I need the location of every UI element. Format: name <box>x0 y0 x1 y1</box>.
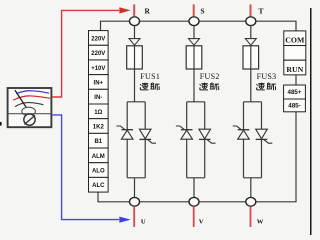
thyristor SCR1b triangle (points down) <box>139 129 151 139</box>
node T <box>246 17 256 26</box>
thyristor pair module column 3 top cap <box>244 101 262 103</box>
thyristor SCR1a gate lead <box>116 126 125 130</box>
fuse FUS1 <box>127 46 143 69</box>
svg-text:FUS2: FUS2 <box>200 72 220 81</box>
thyristor SCR3a triangle (points up) <box>238 130 250 139</box>
thyristor SCR2a gate lead <box>176 126 185 130</box>
meter needle <box>15 90 26 107</box>
thyristor SCR2b triangle (points down) <box>199 129 211 139</box>
node S <box>189 17 199 26</box>
svg-text:ALC: ALC <box>92 183 105 189</box>
wire thyristor pair to node W <box>250 178 252 198</box>
thyristor pair module column 2 top cap <box>187 101 205 103</box>
wire through fuse FUS1 <box>134 45 136 102</box>
wire left branch upper column 1 <box>126 102 128 130</box>
thyristor SCR2b cathode bar <box>199 138 211 140</box>
wire phase R input stub (red) <box>133 4 135 16</box>
meter pivot <box>22 107 36 115</box>
thyristor pair module column 1 top cap <box>127 101 145 103</box>
wire COM/RUN block to 485 block <box>295 75 297 85</box>
node R <box>130 17 140 26</box>
wire left branch lower column 2 <box>186 139 188 178</box>
svg-text:V: V <box>199 219 204 226</box>
meter M1 (analog panel meter) <box>8 88 52 127</box>
svg-text:IN-: IN- <box>94 95 102 101</box>
meter divider line <box>8 113 52 115</box>
svg-text:ALO: ALO <box>92 169 105 175</box>
meter scale arc blue <box>16 91 49 94</box>
arrow red lead pointing at R line <box>119 7 130 13</box>
svg-text:485+: 485+ <box>288 89 302 96</box>
terminal block TB1 (left, control terminals) <box>89 31 109 192</box>
wire through fuse FUS2 <box>193 45 195 102</box>
right window edge line <box>310 8 312 235</box>
wire right branch lower column 2 <box>204 139 206 177</box>
wire node S to arrow <box>193 26 195 39</box>
wire thyristor pair to node V <box>193 178 195 198</box>
value label fast-acting (CJK) for FUS3 <box>256 83 264 90</box>
thyristor SCR1a triangle (points up) <box>121 130 133 139</box>
svg-text:220V: 220V <box>91 36 105 42</box>
value label fast-acting (CJK) for FUS2 <box>200 83 208 90</box>
thyristor SCR3a gate lead <box>233 126 242 130</box>
svg-text:485-: 485- <box>288 102 300 109</box>
thyristor SCR3b gate lead <box>264 139 273 143</box>
fuse FUS3 <box>243 46 259 69</box>
thyristor SCR1a cathode bar <box>121 129 133 131</box>
thyristor SCR1b cathode bar <box>139 138 151 140</box>
wire right branch upper column 3 <box>261 102 263 129</box>
wire right branch lower column 3 <box>261 139 263 177</box>
wire phase S input stub (red) <box>193 4 195 16</box>
thyristor SCR3a cathode bar <box>238 129 250 131</box>
wire right branch upper column 2 <box>204 102 206 129</box>
svg-text:S: S <box>200 7 204 16</box>
arrow (flow direction) column 2 <box>189 39 200 46</box>
svg-text:1K2: 1K2 <box>93 124 105 130</box>
svg-text:W: W <box>257 219 264 226</box>
wire phase U output stub (red) <box>133 206 135 227</box>
wire left branch lower column 3 <box>243 139 245 178</box>
wire left branch upper column 3 <box>243 102 245 130</box>
wire meter to node R (red measuring lead) <box>52 10 119 97</box>
arrow (flow direction) column 3 <box>245 39 256 46</box>
wire phase V output stub (red) <box>193 206 195 227</box>
svg-text:RUN: RUN <box>286 65 303 74</box>
thyristor SCR3b triangle (points down) <box>256 129 268 139</box>
thyristor SCR2a cathode bar <box>181 129 193 131</box>
arrow blue lead pointing at U line <box>119 217 131 223</box>
svg-text:COM: COM <box>285 35 305 44</box>
wire bottom bus from left terminal block through U V W nodes up right side <box>98 112 296 202</box>
wire node R to arrow <box>134 26 136 39</box>
terminal block 485 (right) <box>284 85 306 112</box>
meter scale arc black <box>15 103 44 107</box>
wire right branch lower column 1 <box>144 139 146 177</box>
wire node T to arrow <box>250 26 252 39</box>
wire thyristor pair to node U <box>134 178 136 198</box>
node U <box>130 197 140 206</box>
svg-text:R: R <box>145 7 151 16</box>
svg-text:IN+: IN+ <box>94 80 104 86</box>
svg-text:T: T <box>259 7 264 16</box>
node W <box>246 197 256 206</box>
wire left branch lower column 1 <box>126 139 128 178</box>
thyristor pair module column 2 bottom cap <box>187 177 205 179</box>
wire left branch upper column 2 <box>186 102 188 130</box>
svg-text:ALM: ALM <box>92 154 105 160</box>
node V <box>189 197 199 206</box>
arrow (flow direction) column 1 <box>129 39 140 46</box>
svg-text:U: U <box>141 219 146 226</box>
wire phase W output stub (red) <box>250 206 252 227</box>
svg-text:+10V: +10V <box>91 66 105 72</box>
terminal block COM/RUN (right) <box>284 31 306 75</box>
wire top bus from left terminal block to R S T nodes and right column <box>101 21 297 31</box>
thyristor pair module column 1 bottom cap <box>127 177 145 179</box>
svg-text:1Ω: 1Ω <box>94 110 102 116</box>
wire phase T input stub (red) <box>250 4 252 16</box>
wire through fuse FUS3 <box>250 45 252 102</box>
fuse FUS2 <box>186 46 202 69</box>
thyristor SCR2b gate lead <box>207 139 216 143</box>
svg-text:220V: 220V <box>91 51 105 57</box>
svg-text:FUS3: FUS3 <box>257 72 277 81</box>
thyristor SCR2a triangle (points up) <box>181 130 193 139</box>
left edge mark <box>0 122 2 126</box>
wire right branch upper column 1 <box>144 102 146 129</box>
value label fast-acting (CJK) for FUS1 <box>140 83 148 90</box>
meter scale arc red <box>13 96 50 100</box>
meter adjust screw <box>24 114 35 125</box>
thyristor SCR1b gate lead <box>147 139 156 143</box>
svg-text:B1: B1 <box>94 139 102 145</box>
thyristor SCR3b cathode bar <box>256 138 268 140</box>
wire meter to node U (blue measuring lead) <box>52 115 119 220</box>
thyristor pair module column 3 bottom cap <box>244 177 262 179</box>
svg-text:FUS1: FUS1 <box>140 72 160 81</box>
